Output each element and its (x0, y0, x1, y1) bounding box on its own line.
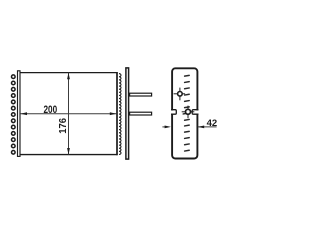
pipe 1 (upper) (130, 93, 152, 96)
left side plate (18, 71, 21, 157)
port 1 centerlines (179, 88, 181, 101)
dimension 42 left line (162, 126, 166, 128)
fin hatch ticks (183, 75, 189, 151)
port 1 (upper pipe end) (178, 92, 183, 97)
svg-text:42: 42 (207, 118, 218, 128)
right notch white-out (196, 111, 200, 114)
dimension 42 left arrow (165, 126, 171, 129)
pipe 2 (lower) (130, 112, 152, 115)
port 2 (lower pipe end) (186, 109, 191, 114)
dimension 176 top arrow (67, 73, 70, 80)
dimension 200 left arrow (20, 112, 27, 115)
dimension 176 bottom arrow (67, 148, 70, 155)
side view body (rounded) (172, 68, 197, 158)
dimension 42 right line (198, 126, 217, 128)
svg-text:200: 200 (43, 104, 57, 116)
dimension 176 line (68, 73, 70, 155)
svg-text:176: 176 (58, 118, 69, 134)
core bottom edge (20, 154, 117, 156)
scalloped tube sheet (119, 74, 121, 155)
core top edge (20, 72, 117, 74)
core right edge (116, 72, 118, 155)
dimension 200 right arrow (110, 112, 117, 115)
dimension 42 right arrow (198, 126, 204, 129)
fin loops (left corrugated fins, 13 circles) (12, 75, 16, 154)
tank flange bar (126, 68, 129, 159)
port 2 centerlines (187, 106, 189, 119)
dimension 200 line (20, 113, 116, 115)
left notch white-out (170, 111, 174, 114)
left notch (171, 110, 176, 115)
right notch (192, 110, 198, 115)
